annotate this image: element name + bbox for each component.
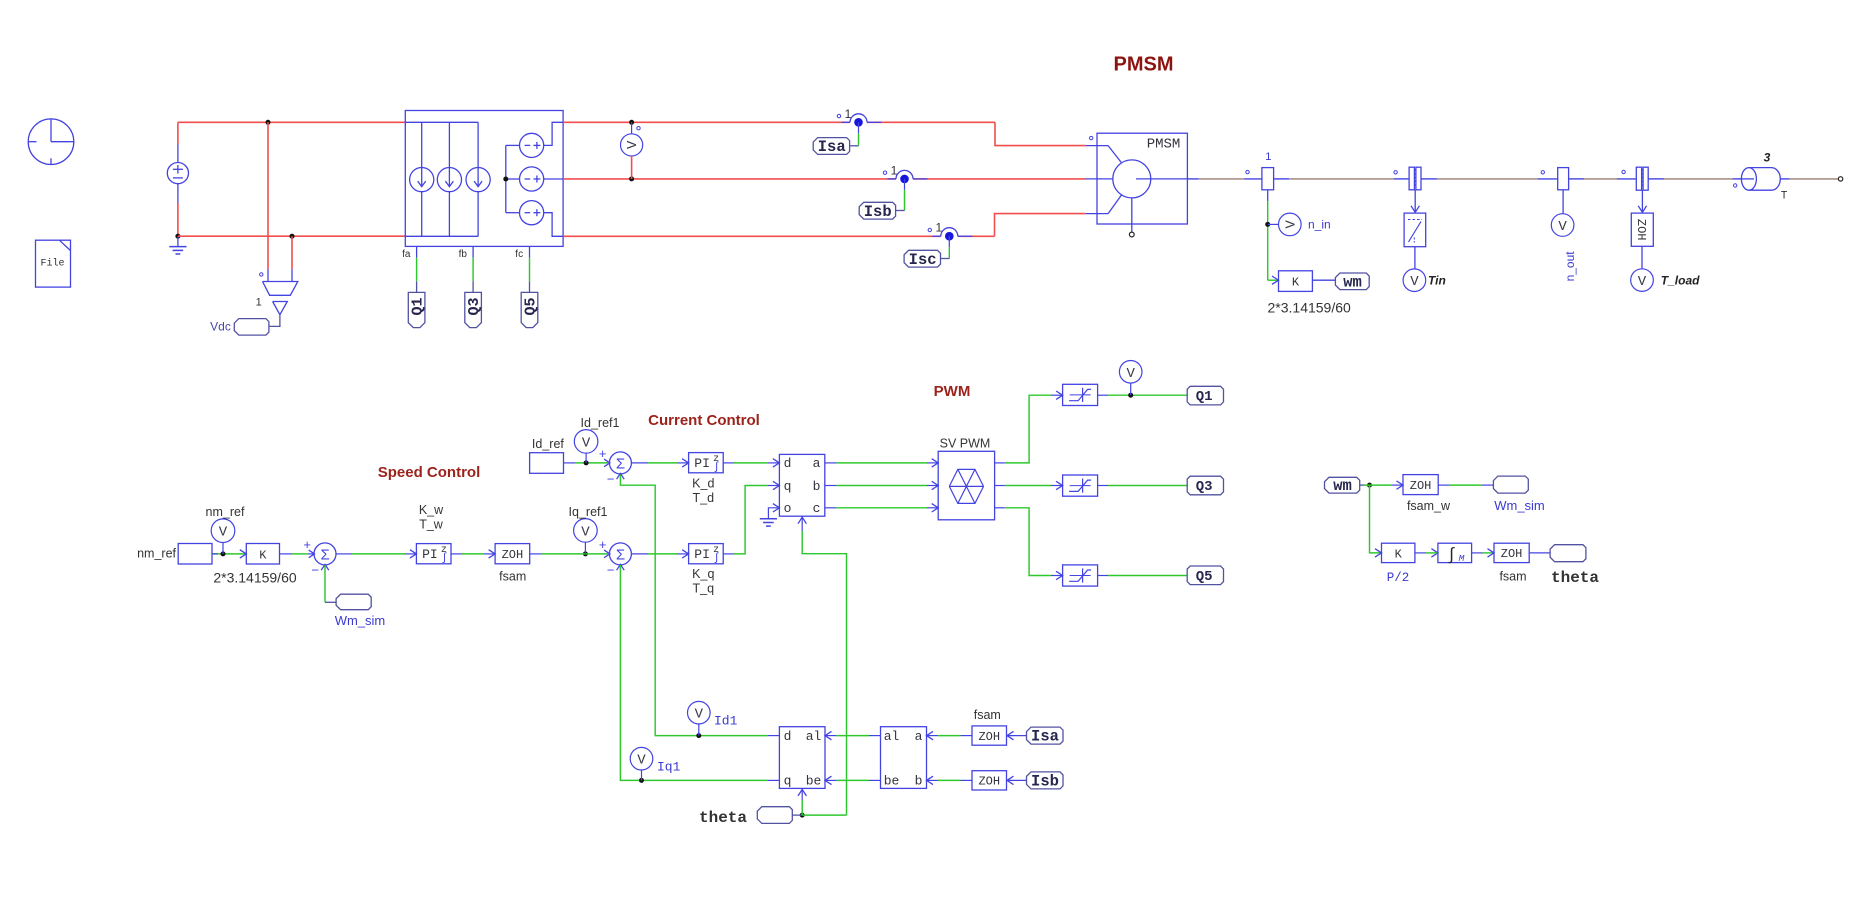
svg-text:PMSM: PMSM [1114,54,1174,76]
svg-text:theta: theta [699,809,747,827]
svg-text:fsam: fsam [974,708,1001,722]
svg-text:V: V [637,753,646,769]
svg-text:V: V [581,524,590,540]
svg-text:P/2: P/2 [1387,571,1410,585]
svg-text:fsam_w: fsam_w [1407,499,1451,513]
svg-text:fsam: fsam [499,570,526,584]
svg-text:Σ: Σ [320,547,329,564]
svg-text:2*3.14159/60: 2*3.14159/60 [1268,300,1352,316]
svg-text:b: b [915,774,923,789]
svg-text:Σ: Σ [616,456,625,473]
svg-text:al: al [806,729,822,744]
svg-text:V: V [1410,274,1419,290]
svg-text:fc: fc [515,249,523,260]
svg-text:Isb: Isb [1031,772,1059,790]
svg-text:Current Control: Current Control [648,412,760,429]
svg-text:Speed Control: Speed Control [378,464,481,481]
svg-text:al: al [884,729,900,744]
svg-text:Vdc: Vdc [210,320,231,334]
svg-text:Wm_sim: Wm_sim [1494,498,1545,513]
svg-text:1: 1 [256,297,262,309]
svg-text:T_q: T_q [693,582,715,596]
svg-text:ZOH: ZOH [502,548,524,562]
svg-text:−: − [607,563,615,578]
svg-text:+: + [599,538,607,553]
svg-text:1: 1 [1265,151,1271,163]
svg-text:T: T [1781,191,1788,203]
svg-text:K_d: K_d [692,477,714,491]
svg-text:1: 1 [845,107,852,121]
svg-text:T_w: T_w [419,518,444,532]
svg-text:Isb: Isb [864,203,892,221]
svg-text:n_out: n_out [1563,251,1577,282]
svg-text:Iq1: Iq1 [657,760,681,775]
svg-text:V: V [695,707,704,723]
svg-text:K_q: K_q [692,567,714,581]
svg-text:Q1: Q1 [410,297,427,315]
svg-text:ZOH: ZOH [1501,547,1523,561]
svg-text:ZOH: ZOH [978,730,1000,744]
svg-text:K: K [259,548,267,562]
svg-text:wm: wm [1333,477,1352,495]
svg-text:V: V [1558,219,1567,235]
svg-text:1: 1 [891,163,898,177]
svg-text:Isc: Isc [909,251,937,269]
svg-text:V: V [1283,220,1299,229]
svg-text:Tin: Tin [1428,273,1446,287]
svg-text:∫: ∫ [713,553,720,565]
svg-text:theta: theta [1551,569,1599,587]
svg-text:−: − [607,472,615,487]
svg-text:3: 3 [1764,151,1771,165]
svg-text:Isa: Isa [818,138,846,156]
svg-text:Wm_sim: Wm_sim [335,613,386,628]
svg-text:Q3: Q3 [1196,479,1213,495]
svg-text:b: b [813,479,821,494]
svg-text:V: V [625,140,641,149]
svg-text:be: be [884,774,900,789]
svg-text:n_in: n_in [1308,218,1331,232]
svg-text:a: a [813,456,821,471]
svg-text:o: o [784,501,792,516]
svg-text:1: 1 [935,221,942,235]
svg-text:ZOH: ZOH [978,775,1000,789]
svg-text:PI: PI [422,547,438,562]
svg-text:PI: PI [694,547,710,562]
svg-text:ZOH: ZOH [1410,479,1432,493]
svg-text:−: − [311,563,319,578]
svg-text:nm_ref: nm_ref [206,505,245,519]
svg-text:Σ: Σ [616,547,625,564]
svg-text:T_d: T_d [693,491,715,505]
svg-text:d: d [784,729,792,744]
svg-text:q: q [784,479,792,494]
svg-text:Id_ref1: Id_ref1 [581,416,620,430]
svg-text:∫: ∫ [713,462,720,474]
svg-text:+: + [303,538,311,553]
svg-text:fb: fb [459,249,468,260]
svg-text:∫: ∫ [441,553,448,565]
svg-text:SV PWM: SV PWM [940,437,991,451]
svg-text:fsam: fsam [1499,570,1526,584]
svg-text:∫: ∫ [1446,547,1456,566]
svg-text:Q1: Q1 [1196,389,1213,405]
svg-text:T_load: T_load [1661,274,1700,288]
svg-text:Id_ref: Id_ref [532,437,564,451]
svg-text:K_w: K_w [419,503,444,517]
svg-text:fa: fa [402,249,411,260]
svg-text:K: K [1395,548,1403,562]
svg-text:Isa: Isa [1031,728,1059,746]
svg-text:nm_ref: nm_ref [137,547,176,561]
svg-text:2*3.14159/60: 2*3.14159/60 [213,570,297,586]
svg-text:File: File [40,258,64,270]
svg-text:PMSM: PMSM [1147,137,1181,153]
svg-text:d: d [784,456,792,471]
svg-text:a: a [915,729,923,744]
svg-text:Q3: Q3 [466,297,483,315]
svg-text:Id1: Id1 [714,714,738,729]
svg-text:PWM: PWM [934,383,971,400]
svg-text:Iq_ref1: Iq_ref1 [569,505,608,519]
svg-text:PI: PI [694,456,710,471]
svg-text:K: K [1292,275,1300,289]
svg-text:c: c [813,501,821,516]
svg-text:be: be [806,774,822,789]
svg-text:+: + [599,447,607,462]
svg-text:Q5: Q5 [523,297,540,315]
svg-text:V: V [1126,366,1135,382]
svg-text:wm: wm [1343,273,1362,291]
svg-text:V: V [219,525,228,541]
svg-text:q: q [784,774,792,789]
svg-text:M: M [1459,553,1465,564]
svg-text:Q5: Q5 [1196,569,1213,585]
svg-text:V: V [582,435,591,451]
svg-text:V: V [1638,274,1647,290]
svg-text:ZOH: ZOH [1634,219,1648,241]
